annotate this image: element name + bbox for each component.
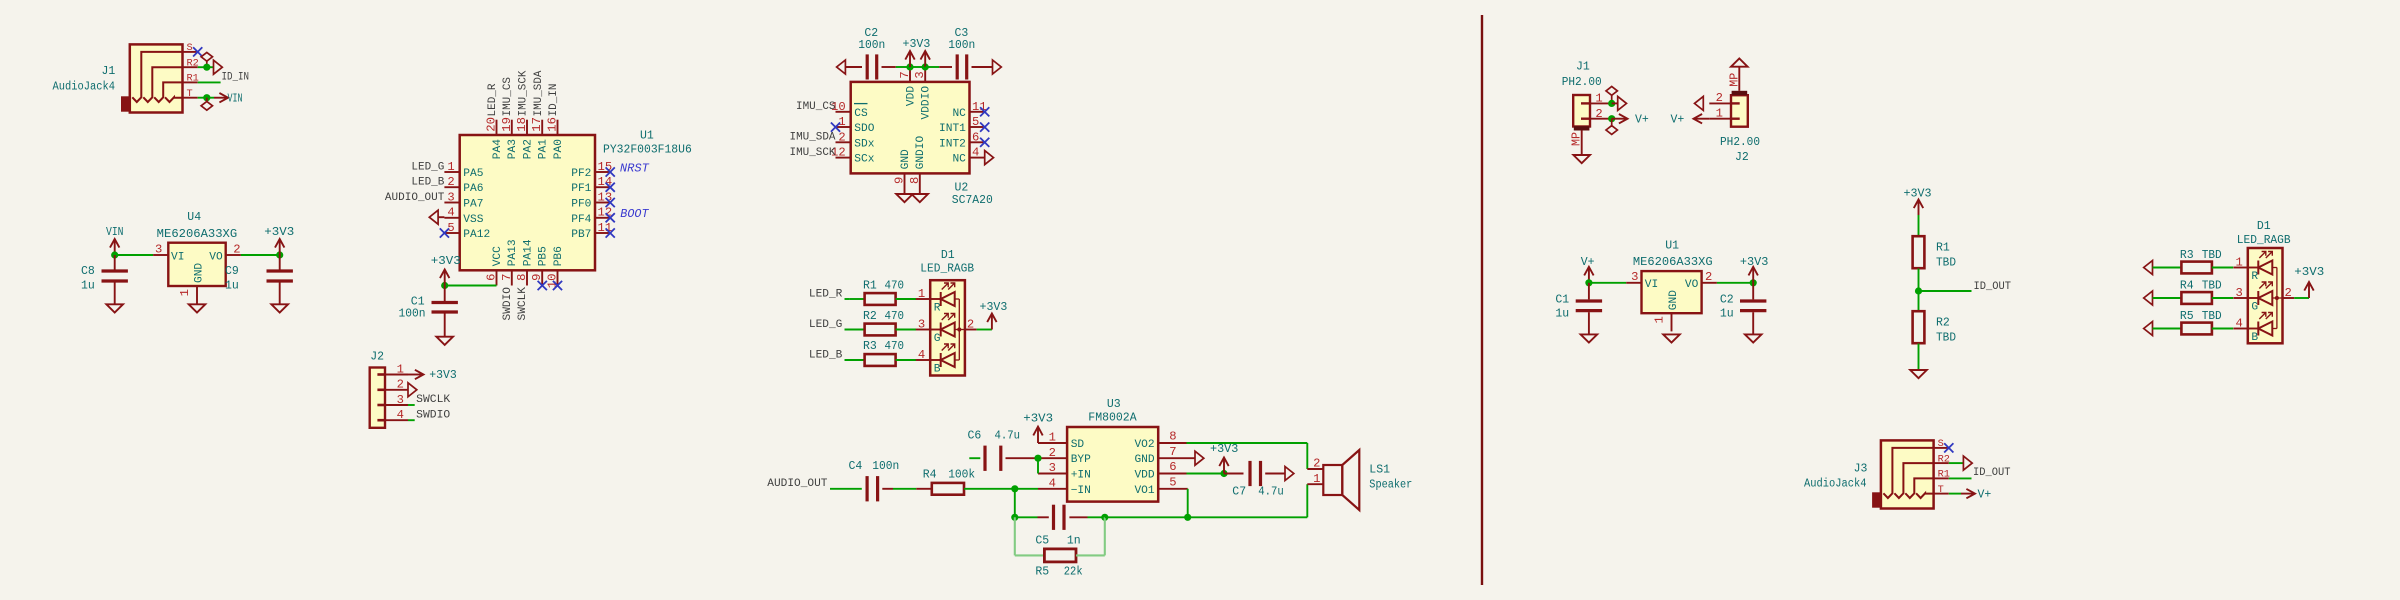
svg-text:AUDIO_OUT: AUDIO_OUT [385, 192, 445, 204]
svg-text:4: 4 [1049, 476, 1056, 490]
junction at VO1 node [1184, 514, 1191, 521]
svg-text:PA3: PA3 [507, 139, 519, 159]
C2 labels [858, 27, 885, 52]
svg-text:GNDIO: GNDIO [915, 136, 927, 170]
svg-text:PF2: PF2 [571, 168, 591, 180]
ground below R2 (right) [1910, 370, 1927, 378]
section divider line [1481, 15, 1483, 585]
pale wire right leg of R5 loop [1104, 517, 1106, 555]
svg-text:LED_R: LED_R [487, 83, 499, 116]
svg-text:VIN: VIN [106, 226, 124, 239]
wire LED_B to R3 [845, 359, 865, 361]
power symbol +3V3 at D1 (right) [2294, 266, 2324, 298]
svg-text:PA13: PA13 [507, 239, 519, 266]
svg-text:SCx: SCx [854, 154, 874, 166]
svg-text:INT1: INT1 [939, 123, 966, 135]
svg-text:GND: GND [1668, 290, 1680, 310]
wire C5 node to VO1 node [1105, 516, 1188, 518]
no-connect on U1 pin 5 [440, 228, 449, 237]
svg-text:100n: 100n [872, 460, 899, 473]
resistor R5 22k [1044, 549, 1076, 562]
svg-text:6: 6 [1169, 460, 1176, 474]
svg-text:U4: U4 [187, 211, 201, 224]
svg-text:PF1: PF1 [571, 183, 591, 195]
R2 labels [863, 310, 904, 323]
wire BYP to +IN [1037, 458, 1039, 473]
connector J1 AudioJack4 [121, 42, 199, 112]
LED D1 LED_RAGB [916, 280, 977, 375]
svg-text:MP: MP [1570, 132, 1584, 146]
capacitor C1 100n [432, 286, 458, 337]
svg-text:1: 1 [918, 287, 925, 301]
capacitor C7 4.7u [1224, 461, 1285, 486]
svg-text:3: 3 [397, 393, 404, 407]
svg-text:4: 4 [972, 146, 979, 160]
svg-text:1u: 1u [1720, 308, 1734, 321]
svg-text:470: 470 [885, 310, 905, 323]
svg-text:100n: 100n [948, 39, 975, 52]
svg-text:VI: VI [171, 251, 184, 263]
svg-text:VSS: VSS [463, 214, 483, 226]
flag triangle at J1 pin 1 [1612, 96, 1627, 110]
svg-text:9: 9 [893, 177, 907, 184]
D1 reference and value [920, 249, 974, 276]
svg-text:VO2: VO2 [1134, 439, 1154, 451]
R4 labels [2180, 280, 2222, 293]
svg-text:SWDIO: SWDIO [416, 409, 450, 421]
svg-text:U1: U1 [1665, 240, 1679, 253]
svg-text:LED_RAGB: LED_RAGB [920, 263, 974, 276]
svg-text:LED_R: LED_R [809, 288, 843, 300]
svg-text:4.7u: 4.7u [995, 430, 1021, 443]
svg-text:R4: R4 [923, 469, 937, 482]
svg-text:3: 3 [2235, 286, 2242, 300]
svg-text:C8: C8 [81, 265, 95, 278]
flag triangle at U3 GND [1195, 451, 1204, 465]
R5 labels [2180, 310, 2222, 323]
resistor R2 470 [865, 324, 916, 336]
svg-text:5: 5 [972, 115, 979, 129]
wire up to speaker pin 1 [1306, 484, 1308, 517]
wire ID_OUT [1919, 290, 1972, 292]
svg-text:SWCLK: SWCLK [517, 287, 529, 321]
capacitor C4 100n [867, 476, 893, 501]
svg-text:VDD: VDD [1134, 470, 1154, 482]
svg-text:17: 17 [530, 117, 544, 132]
svg-text:−IN: −IN [1071, 485, 1091, 497]
svg-text:ME6206A33XG: ME6206A33XG [1633, 256, 1713, 269]
U1 (right) reference and value [1633, 240, 1713, 269]
junction +3V3 node at C9 [276, 251, 283, 258]
svg-text:BOOT: BOOT [620, 207, 649, 221]
svg-text:PA6: PA6 [463, 183, 483, 195]
wire AUDIO_OUT to C4 [830, 488, 862, 490]
svg-text:PA0: PA0 [553, 139, 565, 159]
svg-text:1: 1 [397, 362, 404, 376]
svg-text:1n: 1n [1067, 534, 1081, 547]
resistor R2 TBD (right) [1913, 311, 1925, 343]
svg-text:5: 5 [1169, 475, 1176, 489]
svg-text:B: B [934, 364, 941, 376]
svg-text:R1: R1 [1936, 242, 1950, 255]
junction at C5 left [1011, 514, 1018, 521]
no-connects on U1 pins 9 10 [538, 281, 563, 290]
power symbol VIN at J1 T [214, 92, 243, 105]
svg-text:2: 2 [838, 130, 845, 144]
svg-text:SDO: SDO [854, 123, 874, 135]
svg-text:D1: D1 [941, 249, 955, 262]
U1 reference and value [603, 130, 692, 157]
wire R4 to -IN [985, 488, 1038, 490]
capacitor C6 4.7u [985, 446, 1038, 471]
capacitor C3 100n [939, 54, 992, 79]
svg-text:1: 1 [447, 160, 454, 174]
svg-text:8: 8 [908, 177, 922, 184]
svg-text:4.7u: 4.7u [1258, 486, 1284, 499]
svg-text:SC7A20: SC7A20 [952, 194, 993, 207]
R1 labels (right) [1936, 242, 1956, 270]
R2 labels (right) [1936, 317, 1956, 345]
svg-text:SDx: SDx [854, 138, 874, 150]
svg-text:ID_OUT: ID_OUT [1974, 281, 2012, 293]
svg-text:R4: R4 [2180, 280, 2194, 293]
svg-text:2: 2 [1705, 270, 1712, 284]
svg-text:C1: C1 [1555, 293, 1569, 306]
svg-text:1: 1 [1716, 107, 1723, 121]
flag triangle left of C2 [837, 60, 846, 74]
C9 value labels [225, 265, 239, 292]
LED D1 LED_RAGB (right) [2233, 248, 2294, 344]
svg-text:470: 470 [885, 279, 905, 292]
wire D1 pin2 to +3V3 (right) [2294, 297, 2309, 299]
resistor R3 470 [865, 354, 916, 366]
svg-text:2: 2 [1049, 446, 1056, 460]
svg-text:1: 1 [1313, 472, 1320, 486]
svg-text:1u: 1u [1555, 308, 1569, 321]
svg-text:V+: V+ [1978, 488, 1992, 501]
wire U3 VO2 to speaker [1187, 442, 1308, 444]
svg-text:S: S [1938, 438, 1944, 450]
svg-text:ID_IN: ID_IN [548, 84, 560, 117]
svg-text:LED_G: LED_G [809, 319, 843, 331]
svg-text:LS1: LS1 [1369, 463, 1390, 476]
svg-text:+3V3: +3V3 [1904, 188, 1932, 201]
svg-text:LED_B: LED_B [411, 177, 444, 189]
R3 labels [2180, 249, 2222, 262]
svg-text:PA1: PA1 [538, 139, 550, 159]
svg-text:5: 5 [447, 221, 454, 235]
svg-text:GND: GND [1134, 454, 1154, 466]
power symbol +3V3 above R1 (right) [1904, 188, 1932, 216]
svg-text:U3: U3 [1107, 398, 1121, 411]
svg-text:IMU_SCK: IMU_SCK [518, 70, 530, 116]
svg-text:8: 8 [1169, 430, 1176, 444]
svg-text:C2: C2 [1720, 293, 1734, 306]
capacitor C5 1n [1038, 505, 1088, 530]
flag triangle on J1 pin R2 (ID_IN) [214, 60, 223, 74]
power symbol V+ at J2 pin 1 [1670, 113, 1709, 126]
svg-text:TBD: TBD [2202, 249, 2222, 262]
C4 labels [849, 460, 900, 473]
svg-text:19: 19 [500, 117, 514, 132]
svg-text:7: 7 [1169, 445, 1176, 459]
svg-text:PF4: PF4 [571, 214, 591, 226]
regulator U1 ME6206A33XG (right) [1626, 270, 1717, 331]
svg-text:16: 16 [546, 117, 560, 132]
svg-text:R2: R2 [863, 310, 877, 323]
wire C6 stub [969, 457, 980, 459]
junction at C7 node [1220, 470, 1227, 477]
C8 value labels [81, 265, 95, 292]
flag triangles at R3 R4 R5 inputs [2144, 261, 2153, 336]
power symbol +3V3 at U3 SD [1023, 413, 1053, 444]
power symbol V+ at J1 pin 2 [1612, 113, 1649, 126]
wire C2 left [845, 66, 862, 68]
junction at U3 BYP [1034, 455, 1041, 462]
svg-text:R: R [934, 303, 941, 315]
wire LED_R to R1 [845, 298, 850, 300]
wire to C5 [1015, 516, 1038, 518]
flag diamond above J1 pin R2 [201, 52, 212, 67]
connector J3 AudioJack4 [1872, 438, 1950, 508]
ground below U1 (right) [1663, 334, 1680, 342]
svg-text:SWDIO: SWDIO [502, 287, 514, 321]
wire J1 T to VIN [198, 97, 214, 99]
junction on J1 T wire [203, 94, 210, 101]
R5 labels [1035, 566, 1082, 579]
svg-text:AUDIO_OUT: AUDIO_OUT [767, 478, 828, 490]
power symbol +3V3 at C7 [1210, 443, 1238, 473]
svg-text:TBD: TBD [2202, 280, 2222, 293]
no-connect on J1 pin S [193, 47, 202, 56]
svg-text:4: 4 [2235, 317, 2242, 331]
ground below C8 [106, 304, 123, 312]
power symbol VIN above C8 [106, 226, 124, 255]
flag triangle right of C7 [1285, 467, 1294, 481]
flag triangle at J2 pin 2 [1695, 96, 1704, 110]
svg-text:VI: VI [1645, 279, 1658, 291]
svg-text:VDDIO: VDDIO [921, 86, 933, 120]
wire +3V3 to R1 [1918, 215, 1920, 236]
svg-text:3: 3 [447, 190, 454, 204]
svg-text:IMU_SDA: IMU_SDA [533, 70, 545, 116]
power symbol +3V3 above C9 [264, 226, 294, 255]
ground below U4 [189, 304, 206, 312]
svg-text:2: 2 [397, 378, 404, 392]
svg-text:J3: J3 [1854, 462, 1868, 475]
no-connects U2 pins 11 5 6 [980, 107, 989, 147]
svg-text:+3V3: +3V3 [1740, 256, 1769, 269]
J2 (right) reference and value [1720, 136, 1760, 164]
pale wire R5 to right leg [1076, 554, 1105, 556]
amplifier U3 FM8002A [1038, 427, 1195, 502]
svg-text:2: 2 [447, 175, 454, 189]
svg-text:V+: V+ [1670, 113, 1684, 126]
svg-text:470: 470 [885, 340, 905, 353]
svg-text:1: 1 [1653, 316, 1667, 323]
svg-text:U1: U1 [640, 130, 654, 143]
svg-text:1: 1 [178, 289, 192, 296]
svg-text:TBD: TBD [1936, 332, 1956, 345]
svg-text:2: 2 [967, 318, 974, 332]
svg-text:PA2: PA2 [522, 139, 534, 159]
wire J2 pin 4 [408, 419, 415, 421]
svg-text:VO: VO [1685, 279, 1699, 291]
U2 reference and value [952, 182, 993, 207]
svg-text:+3V3: +3V3 [431, 255, 461, 268]
svg-text:4: 4 [447, 206, 454, 220]
junction at C1 top [441, 282, 448, 289]
junction at -IN node [1011, 485, 1018, 492]
connector J2 4-pin header [370, 362, 408, 428]
svg-text:+3V3: +3V3 [1023, 413, 1053, 426]
wire C5 to right node [1088, 516, 1105, 518]
svg-text:PY32F003F18U6: PY32F003F18U6 [603, 144, 692, 157]
svg-text:3: 3 [155, 242, 162, 256]
junction V+ node (right) [1585, 279, 1592, 286]
svg-text:NC: NC [952, 154, 966, 166]
wire R2 to ground [1918, 344, 1920, 371]
svg-text:G: G [934, 333, 941, 345]
svg-text:3: 3 [918, 318, 925, 332]
svg-text:VCC: VCC [492, 246, 504, 266]
svg-text:R1: R1 [863, 279, 877, 292]
U3 reference and value [1088, 398, 1136, 424]
svg-text:T: T [187, 88, 193, 100]
C1 value labels [399, 296, 426, 321]
svg-text:+3V3: +3V3 [429, 369, 457, 382]
svg-text:+3V3: +3V3 [903, 38, 931, 51]
svg-text:3: 3 [1049, 461, 1056, 475]
junction +3V3 node (right) [1750, 279, 1757, 286]
svg-text:2: 2 [1313, 457, 1320, 471]
svg-text:100k: 100k [948, 469, 975, 482]
svg-text:R3: R3 [863, 340, 877, 353]
svg-text:R3: R3 [2180, 249, 2194, 262]
R1 labels [863, 279, 904, 292]
svg-text:PB5: PB5 [538, 246, 550, 266]
power symbol +3V3 above C2 (right) [1740, 256, 1769, 283]
svg-text:100n: 100n [399, 308, 426, 321]
wire J1 R2 to flag [198, 66, 214, 68]
svg-text:1: 1 [1595, 92, 1602, 106]
pale wire left leg of R5 loop [1014, 517, 1016, 555]
resistor R4 100k [916, 483, 985, 495]
junction at U2 VDDIO [922, 63, 929, 70]
wire D1 pin2 to +3V3 [977, 329, 992, 331]
pale wire to R5 [1015, 554, 1045, 556]
svg-text:LED_RAGB: LED_RAGB [2237, 234, 2291, 247]
svg-text:IMU_SDA: IMU_SDA [790, 132, 836, 144]
resistor R3 TBD [2181, 262, 2233, 274]
svg-text:ME6206A33XG: ME6206A33XG [157, 228, 238, 241]
svg-text:1: 1 [1049, 431, 1056, 445]
svg-text:PA7: PA7 [463, 199, 483, 211]
svg-text:T: T [1938, 484, 1944, 496]
resistor R1 TBD (right) [1913, 236, 1925, 268]
svg-text:D1: D1 [2257, 220, 2271, 233]
svg-text:IMU_CS: IMU_CS [502, 77, 514, 117]
svg-text:C9: C9 [225, 265, 239, 278]
MCU U1 PY32F003F18U6 [444, 117, 612, 288]
wire down to speaker pin 2 [1306, 443, 1308, 469]
R3 labels [863, 340, 904, 353]
capacitor C2 100n [867, 54, 896, 79]
wire VIN node to U4 VI [115, 254, 153, 256]
flag triangle on U1 VSS pin 4 [429, 210, 444, 224]
wire LED_G to R2 [845, 329, 865, 331]
resistor R1 470 [849, 293, 916, 305]
power symbol +3V3 above U2 (two arrows) [903, 38, 931, 67]
svg-text:2: 2 [1595, 107, 1602, 121]
svg-text:VDD: VDD [905, 86, 917, 106]
U4 reference and value [157, 211, 238, 241]
svg-text:3: 3 [1631, 270, 1638, 284]
svg-text:GND: GND [900, 149, 912, 169]
C1 labels (right) [1555, 293, 1569, 320]
svg-text:R5: R5 [2180, 310, 2194, 323]
svg-text:C6: C6 [968, 430, 982, 443]
wire U3 VO1 down [1187, 489, 1189, 518]
svg-text:GND: GND [193, 263, 205, 283]
power symbol V+ at J3 T [1961, 488, 1991, 501]
resistor R5 TBD [2181, 323, 2233, 335]
svg-text:INT2: INT2 [939, 138, 966, 150]
svg-text:6: 6 [972, 130, 979, 144]
svg-text:PB6: PB6 [553, 246, 565, 266]
svg-text:FM8002A: FM8002A [1088, 411, 1136, 424]
svg-text:1u: 1u [225, 279, 239, 292]
svg-text:AudioJack4: AudioJack4 [1804, 477, 1867, 490]
svg-text:2: 2 [233, 242, 240, 256]
svg-text:+IN: +IN [1071, 470, 1091, 482]
wire VO1 node to speaker [1188, 516, 1308, 518]
capacitor C1 1u (right) [1576, 283, 1602, 335]
wire U4 VO to +3V3 [241, 254, 280, 256]
svg-text:ID_IN: ID_IN [222, 72, 250, 84]
grounds below U2 [896, 194, 928, 202]
capacitor C2 1u (right) [1740, 283, 1766, 335]
flag triangle at J2 pin 2 [408, 383, 417, 397]
LS1 reference and value [1369, 463, 1412, 491]
flag diamond below J1 pin 2 [1606, 119, 1617, 135]
svg-text:VO1: VO1 [1134, 485, 1154, 497]
power symbol +3V3 at D1 [980, 301, 1008, 330]
svg-text:+3V3: +3V3 [1210, 443, 1238, 456]
ground below C2 (right) [1745, 334, 1762, 342]
no-connect U2 pin 1 [831, 123, 840, 132]
svg-text:V+: V+ [1581, 256, 1595, 269]
no-connect on J3 pin S [1944, 443, 1953, 452]
svg-text:Speaker: Speaker [1369, 479, 1412, 492]
junction at J1 pin 2 [1608, 115, 1615, 122]
svg-text:TBD: TBD [1936, 257, 1956, 270]
svg-text:6: 6 [485, 274, 499, 281]
C2 labels (right) [1720, 293, 1734, 320]
svg-text:R: R [2251, 271, 2258, 283]
svg-text:LED_G: LED_G [411, 161, 444, 173]
wire C2 to VDD [896, 66, 910, 68]
svg-text:B: B [2251, 332, 2258, 344]
wire to R5 [2153, 328, 2182, 330]
power symbol +3V3 above C1 [431, 255, 461, 285]
svg-text:4: 4 [397, 408, 404, 422]
svg-text:1: 1 [2235, 256, 2242, 270]
J1 reference and value labels [53, 65, 116, 94]
wire U1 VCC to +3V3 [445, 285, 497, 287]
svg-text:PA14: PA14 [522, 239, 534, 266]
svg-text:7: 7 [898, 71, 912, 78]
